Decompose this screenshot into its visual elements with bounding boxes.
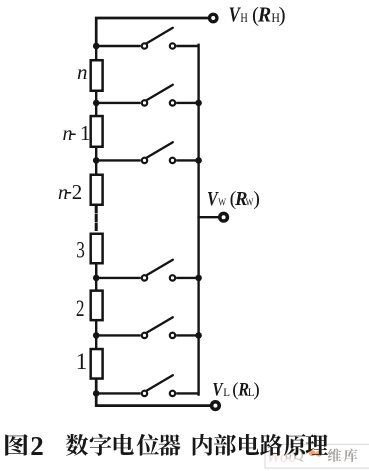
wire: dashed ladder continuation between n-2 and 3 xyxy=(95,206,98,233)
wire: ladder top to VH terminal xyxy=(96,18,207,46)
wire: bus to VW terminal xyxy=(199,216,219,218)
svg-text:H: H xyxy=(240,12,247,25)
terminal VH xyxy=(210,14,217,21)
svg-text:n: n xyxy=(77,60,88,84)
resistor n-1 xyxy=(91,116,103,147)
svg-text:V: V xyxy=(207,187,219,209)
node: bus junction row 2 xyxy=(195,100,202,107)
watermark 维库 text xyxy=(328,449,358,462)
switch S3 tap n-2 xyxy=(96,142,198,163)
node: bus junction row 4 xyxy=(195,275,202,282)
svg-text:V: V xyxy=(212,379,223,400)
wire: resistor 3 to node row4 xyxy=(95,264,97,279)
switch S4 tap 2 xyxy=(96,260,198,281)
svg-text:1: 1 xyxy=(76,349,88,374)
caption 图2 数字电位器内部电路原理 xyxy=(5,434,328,456)
resistor n xyxy=(91,60,103,91)
wire: ladder segments between resistors xyxy=(95,45,97,60)
terminal VW xyxy=(220,213,228,221)
svg-text:V: V xyxy=(229,4,241,27)
node: ladder junction row 4 xyxy=(93,275,100,282)
watermark box xyxy=(265,444,369,468)
node: ladder junction row 1 xyxy=(93,43,100,50)
resistor 2 xyxy=(91,291,103,321)
node: ladder junction row 5 xyxy=(93,332,100,339)
svg-text:R: R xyxy=(257,4,271,27)
switch S1 top (VH tap) xyxy=(96,28,198,49)
resistor 1 xyxy=(91,349,103,379)
node: bus junction row 5 xyxy=(195,332,202,339)
resistor n-2 xyxy=(91,175,103,205)
svg-text:2: 2 xyxy=(76,297,85,322)
node: ladder junction row 2 xyxy=(93,100,100,107)
svg-text:-: - xyxy=(70,122,77,144)
watermark orange dots xyxy=(309,450,316,456)
svg-text:W: W xyxy=(218,196,226,208)
switch S5 tap 1 xyxy=(96,317,198,338)
node: bus junction row 3 xyxy=(195,157,202,164)
switch S2 tap n-1 xyxy=(96,85,198,106)
node: ladder junction row 6 xyxy=(93,390,100,397)
svg-text:2: 2 xyxy=(30,431,44,461)
wire: ladder bottom to VL terminal xyxy=(96,379,210,406)
svg-text:): ) xyxy=(279,3,286,27)
svg-text:2: 2 xyxy=(72,180,83,204)
node: ladder junction row 3 xyxy=(93,157,100,164)
svg-text:3: 3 xyxy=(76,238,85,263)
svg-text:): ) xyxy=(253,188,260,210)
svg-text:): ) xyxy=(253,379,259,400)
svg-text:L: L xyxy=(223,386,230,398)
switch S6 bottom (VL tap) xyxy=(96,375,198,396)
resistor 3 xyxy=(91,234,103,264)
svg-text:1: 1 xyxy=(80,121,91,145)
terminal VL xyxy=(212,402,220,410)
wire: wiper bus vertical xyxy=(197,45,199,395)
